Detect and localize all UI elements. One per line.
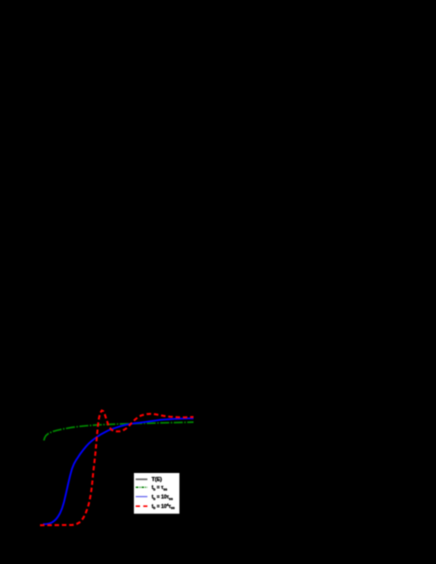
svg-text:T(E): T(E)	[152, 477, 163, 483]
